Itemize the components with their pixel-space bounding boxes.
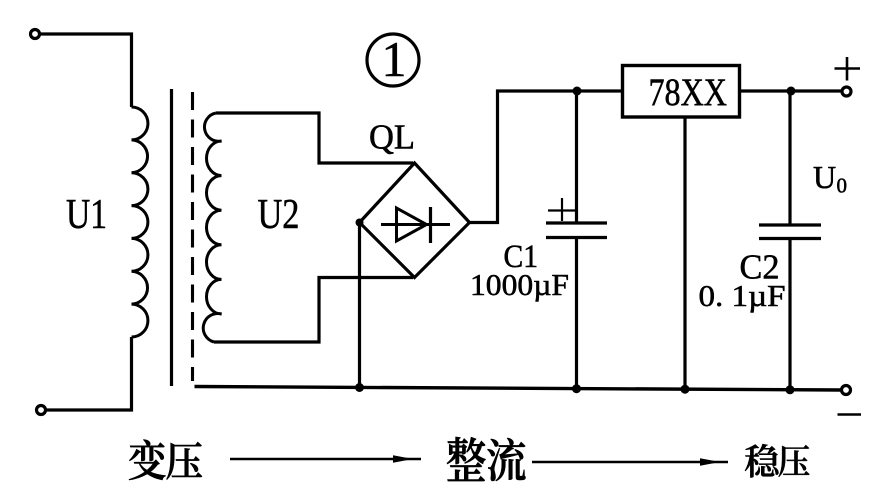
transformer core (solid bar) [170, 89, 173, 386]
wire: primary winding bottom to bottom input terminal [46, 337, 132, 410]
node: bridge DC- corner junction [356, 219, 364, 227]
wire: C1 bottom lead [575, 238, 578, 391]
label: wen ya (regulate) [745, 444, 809, 477]
node: bridge DC- rail junction [355, 383, 364, 392]
input terminal (top) [31, 30, 40, 39]
figure number 1 (circled) [367, 31, 419, 87]
wire: top input terminal to primary winding [40, 34, 132, 107]
regulator U3 box [623, 66, 740, 118]
svg-text:QL: QL [369, 118, 415, 157]
svg-text:U: U [813, 159, 836, 195]
svg-text:U1: U1 [66, 192, 107, 238]
minus sign [838, 413, 862, 416]
svg-text:0: 0 [837, 174, 848, 198]
node: C2 top junction [787, 87, 796, 96]
node: C1 top junction [573, 87, 582, 96]
svg-text:U2: U2 [258, 192, 300, 238]
transformer secondary winding [203, 113, 221, 342]
ground rail (bottom bus wire) [195, 387, 842, 391]
svg-text:1000µF: 1000µF [470, 267, 569, 302]
node: 78XX ground junction [681, 385, 690, 394]
capacitor C1 plates [546, 223, 607, 238]
node: C2 bottom junction [786, 385, 795, 394]
arrow: rectify to regulate [532, 458, 728, 466]
wire: 78XX ground pin to rail [683, 117, 686, 390]
wire: bridge DC- to ground rail [358, 223, 361, 391]
input terminal (bottom) [37, 406, 46, 415]
wire: C1 top lead [575, 91, 578, 224]
svg-text:0. 1µF: 0. 1µF [699, 278, 786, 313]
svg-text:78XX: 78XX [649, 71, 728, 114]
transformer core (dashed bar) [191, 92, 194, 381]
C1 polarity plus mark [548, 198, 575, 221]
diode symbol inside bridge [381, 207, 450, 243]
plus sign [835, 57, 861, 81]
label U0 (output voltage) [813, 159, 847, 198]
output terminal - [842, 386, 851, 395]
svg-text:1: 1 [382, 31, 407, 87]
label: zheng liu (rectify) [447, 437, 525, 481]
wire: secondary top to bridge AC input (top corner) [216, 113, 413, 163]
node: C1 bottom junction [572, 384, 581, 393]
arrow: transform to rectify [230, 455, 421, 463]
wire: secondary bottom to bridge AC input (bottom corner) [214, 278, 413, 343]
transformer primary winding [132, 107, 148, 337]
capacitor C2 plates [759, 225, 821, 239]
bridge rectifier QL (diamond) [360, 163, 470, 278]
wire: 78XX output to + terminal [740, 89, 843, 92]
wire: bridge DC+ up to top rail into 78XX input [470, 91, 623, 223]
label: bian ya (transform) [129, 440, 202, 481]
wire: C2 top lead [788, 91, 791, 226]
wire: C2 bottom lead [788, 239, 791, 391]
output terminal + [842, 87, 851, 96]
